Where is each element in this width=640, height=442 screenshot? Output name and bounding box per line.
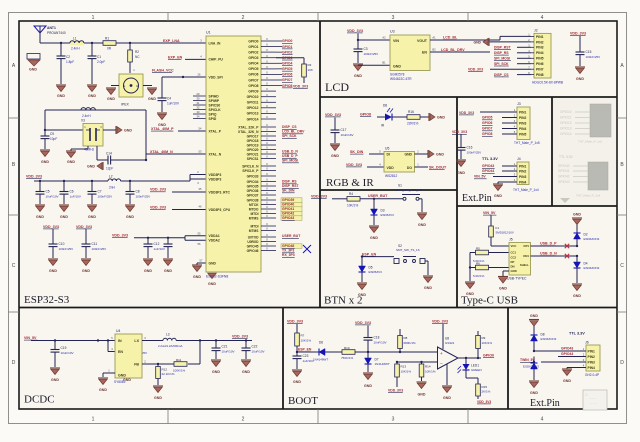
wire row2 (558, 356, 586, 358)
svg-text:LNA_IN: LNA_IN (209, 41, 222, 45)
svg-text:SPICLK: SPICLK (209, 108, 222, 112)
svg-text:GND: GND (148, 97, 156, 101)
svg-text:C21: C21 (222, 345, 228, 349)
svg-text:GND: GND (404, 153, 412, 157)
capacitor C16 (457, 135, 482, 160)
ground for C9 (40, 150, 50, 164)
wire VDD to U5 (367, 166, 384, 168)
svg-text:VDD3P3: VDD3P3 (209, 177, 222, 181)
svg-text:GPIO40: GPIO40 (282, 203, 294, 207)
svg-text:GPIO0: GPIO0 (248, 39, 258, 43)
svg-text:EN: EN (118, 350, 123, 354)
svg-text:XTAL_N: XTAL_N (209, 152, 222, 156)
junction (129, 42, 131, 44)
svg-text:2: 2 (242, 417, 245, 423)
svg-text:XTAL_P: XTAL_P (209, 129, 222, 133)
ESP32 chip U1 (206, 31, 261, 279)
svg-text:GPIO46: GPIO46 (247, 249, 259, 253)
opamp gnd stub (446, 364, 448, 386)
chip U1 right pin names (238, 39, 259, 253)
svg-text:D4: D4 (584, 262, 588, 266)
net label VDD_3V3 for C11 (76, 225, 92, 229)
svg-text:GND: GND (208, 282, 216, 286)
svg-text:GND: GND (473, 40, 481, 44)
GPIO labels to J3 (482, 116, 517, 137)
svg-text:C: C (620, 263, 624, 269)
svg-text:750K/1%: 750K/1% (341, 356, 354, 360)
svg-text:GPIO7: GPIO7 (482, 127, 492, 131)
diode D6 (313, 341, 328, 362)
resistor R13 (395, 362, 412, 387)
net label XTAL_40M_P (151, 127, 174, 131)
svg-text:XTAL_40M_P: XTAL_40M_P (151, 127, 174, 131)
LED1 (458, 358, 482, 373)
svg-text:GPIO2: GPIO2 (248, 50, 258, 54)
svg-text:10K/1%: 10K/1% (482, 341, 493, 345)
ground for C13 (163, 259, 173, 273)
svg-text:ESD5ZV3: ESD5ZV3 (381, 213, 395, 217)
svg-text:CC2: CC2 (511, 256, 517, 260)
svg-text:DP1: DP1 (524, 244, 530, 248)
svg-text:1N4148WT: 1N4148WT (375, 362, 390, 366)
svg-text:J6: J6 (585, 341, 589, 345)
svg-text:PIN5: PIN5 (536, 57, 544, 61)
svg-text:C3: C3 (364, 47, 368, 51)
svg-text:GPIO38: GPIO38 (247, 198, 259, 202)
power rail wire (34, 180, 108, 182)
svg-text:SPI_SCK: SPI_SCK (494, 62, 509, 66)
svg-text:VDD_3V3: VDD_3V3 (150, 188, 166, 192)
svg-text:1uF/10V: 1uF/10V (154, 247, 165, 251)
svg-text:C7: C7 (98, 190, 102, 194)
antenna ANT1 (34, 26, 66, 43)
svg-text:VDD_3V3: VDD_3V3 (26, 175, 42, 179)
svg-text:DISP_RST: DISP_RST (282, 184, 300, 188)
svg-text:LCD: LCD (325, 80, 349, 94)
svg-text:DISP_CS: DISP_CS (494, 73, 509, 77)
svg-text:PIN2: PIN2 (536, 40, 544, 44)
net label DISP_RST J2 (494, 46, 512, 50)
resistor R9 (476, 331, 493, 358)
resistor R4 (347, 192, 360, 208)
svg-text:GPIO11: GPIO11 (560, 116, 572, 120)
svg-text:Type-C USB: Type-C USB (461, 295, 518, 307)
net label SPI_SCK J2 (494, 62, 509, 66)
ground opamp (442, 386, 452, 400)
resistor R16 (407, 110, 420, 126)
svg-text:DISP_RST: DISP_RST (494, 46, 512, 50)
svg-text:100nF/25V: 100nF/25V (136, 194, 151, 198)
svg-text:GPIO8: GPIO8 (282, 84, 292, 88)
svg-text:R8: R8 (404, 336, 408, 340)
wire GPIO8 to IR led (377, 116, 385, 118)
svg-text:GPIO37: GPIO37 (247, 193, 259, 197)
svg-text:VIN_5V: VIN_5V (24, 336, 37, 340)
svg-text:THT_Male_P_1x5: THT_Male_P_1x5 (514, 141, 540, 145)
svg-text:VDD_3V3: VDD_3V3 (477, 400, 491, 404)
inductor L3 (158, 333, 182, 348)
svg-text:GND: GND (437, 115, 445, 119)
crystal circuit top wire (45, 109, 146, 111)
wire EXP_EN to CHIP_PU (185, 58, 206, 60)
net label VDD_3V3 C18 (355, 321, 371, 325)
wire VDD to J3 pin1 (480, 111, 517, 113)
svg-text:THT_Male_P_1x4: THT_Male_P_1x4 (513, 188, 539, 192)
svg-text:DISP_RS: DISP_RS (494, 51, 509, 55)
ground top of D8 esd (529, 314, 539, 326)
ground for C16 (456, 160, 466, 175)
svg-text:SMD1812/16V: SMD1812/16V (496, 231, 514, 235)
ground J5 (503, 271, 509, 276)
net label VDD_3V3 C15 (570, 32, 586, 36)
net label VDD_3V3 power rail (26, 175, 42, 179)
svg-text:GPIO6: GPIO6 (248, 73, 258, 77)
net label VDD_3V3 J2 (468, 67, 483, 71)
svg-text:PROANT440: PROANT440 (47, 31, 66, 35)
no-connect X on USB_D_P (565, 244, 569, 248)
wire IR to R16 (392, 116, 407, 118)
ground R12 (153, 386, 163, 400)
svg-text:R13: R13 (401, 365, 407, 369)
wire R10 to node (355, 351, 438, 353)
svg-text:MTMS: MTMS (249, 216, 260, 220)
svg-text:GPIO5: GPIO5 (482, 116, 492, 120)
svg-text:GND: GND (563, 379, 571, 383)
svg-text:GPIO0: GPIO0 (282, 39, 292, 43)
wire S2 to gnd (425, 261, 428, 275)
svg-text:3: 3 (392, 417, 395, 423)
svg-text:D3: D3 (381, 209, 385, 213)
net labels J4 (474, 164, 517, 179)
svg-text:TTL 3.3V: TTL 3.3V (559, 155, 574, 159)
svg-text:10K: 10K (308, 68, 313, 72)
svg-text:VDD_3V3: VDD_3V3 (293, 85, 308, 89)
capacitor C2 (57, 43, 75, 84)
svg-text:GND: GND (209, 261, 217, 265)
svg-text:F1: F1 (496, 226, 500, 230)
svg-text:2K/1%: 2K/1% (482, 390, 491, 394)
svg-text:10K/1%: 10K/1% (301, 338, 312, 342)
net label LCD_BL_DRV (441, 48, 465, 52)
svg-text:GPIO12: GPIO12 (560, 121, 572, 125)
svg-text:THT_Male_P_1x5: THT_Male_P_1x5 (578, 140, 603, 144)
capacitor C21 (212, 341, 235, 360)
resistor R6 (473, 261, 509, 278)
svg-text:C18: C18 (374, 336, 380, 340)
wire ESP_EN to S2 (362, 256, 394, 258)
svg-text:GPIO5: GPIO5 (248, 67, 258, 71)
rail after L2 (121, 175, 206, 182)
svg-text:THT_Male_P_1x4: THT_Male_P_1x4 (576, 194, 601, 198)
svg-text:LCD_BL_DRV: LCD_BL_DRV (282, 130, 305, 134)
resistor R3 pull-up (276, 58, 313, 83)
net label VDD_3V3 VDDA (112, 233, 128, 237)
ground for C5 (35, 205, 45, 219)
wire EN LCD_BL_DRV (430, 51, 490, 53)
wire R5 R6 to gnd (469, 253, 476, 282)
resistor R5 (473, 246, 509, 263)
net label VDD_3V3 DCDC out (232, 335, 248, 339)
svg-text:PIN3: PIN3 (536, 46, 544, 50)
FB wire (142, 341, 200, 366)
net label TWIN_5V (520, 358, 535, 362)
svg-text:100nF/25V: 100nF/25V (364, 52, 379, 56)
svg-text:SK_DIN: SK_DIN (282, 189, 295, 193)
svg-text:GPIO21: GPIO21 (247, 152, 259, 156)
resistor R14 (419, 362, 436, 381)
svg-text:PIN1: PIN1 (536, 35, 544, 39)
ground S2 (423, 276, 433, 290)
svg-text:SPI_SCK: SPI_SCK (282, 134, 297, 138)
svg-text:GND: GND (51, 378, 59, 382)
svg-text:——: —— (590, 396, 596, 400)
junction (60, 42, 62, 44)
svg-text:GPIO44: GPIO44 (561, 352, 573, 356)
svg-text:2.0pF: 2.0pF (97, 60, 105, 64)
ground for C2 (56, 85, 66, 98)
svg-text:GND: GND (530, 391, 538, 395)
right side net labels group1 (282, 125, 305, 163)
svg-text:ESD6ZON3: ESD6ZON3 (584, 237, 600, 241)
right side GPIO net labels (276, 39, 293, 88)
net label VDD_3V3 BTN (311, 195, 327, 199)
svg-text:GND: GND (370, 236, 378, 240)
diode D8 ESD (531, 326, 557, 351)
svg-text:IN: IN (118, 339, 122, 343)
svg-text:VIN_5V: VIN_5V (474, 175, 486, 179)
wire to VDD3P3_RTC (172, 191, 206, 193)
row ticks and letters (9, 63, 627, 366)
svg-text:10K/1%: 10K/1% (347, 203, 358, 207)
svg-text:GND: GND (393, 65, 401, 69)
svg-text:VDDA1: VDDA1 (209, 234, 220, 238)
right side net labels group2 (282, 180, 300, 193)
svg-text:2nH: 2nH (109, 186, 116, 190)
svg-text:PIN1: PIN1 (588, 349, 595, 353)
svg-text:R7: R7 (301, 334, 305, 338)
svg-text:MTDO: MTDO (249, 207, 259, 211)
svg-text:GH2.0-4P: GH2.0-4P (585, 373, 599, 377)
svg-text:PIN2: PIN2 (519, 169, 526, 173)
wire D6 to R10 (325, 351, 342, 353)
wire crystal pin4 to C14 (97, 146, 108, 160)
svg-text:1uF/10V: 1uF/10V (70, 194, 81, 198)
svg-text:GND: GND (466, 292, 474, 296)
wire VDDA rail (134, 236, 206, 241)
svg-text:GPIO11: GPIO11 (247, 101, 259, 105)
svg-text:U0TXD: U0TXD (248, 235, 259, 239)
svg-text:PIN1: PIN1 (519, 164, 526, 168)
svg-text:GND: GND (29, 68, 37, 72)
svg-text:U4: U4 (116, 329, 120, 333)
ground D3 (369, 226, 379, 240)
svg-text:SPICS1: SPICS1 (247, 157, 259, 161)
svg-text:GPIO35: GPIO35 (247, 184, 259, 188)
svg-text:PIN7: PIN7 (536, 68, 544, 72)
svg-text:U3: U3 (390, 30, 395, 34)
net label XTAL_40M_N (150, 150, 173, 154)
svg-text:GPIO45: GPIO45 (247, 244, 259, 248)
svg-text:R11: R11 (176, 358, 182, 362)
ground U4 (98, 378, 108, 392)
svg-text:DCDC: DCDC (24, 394, 55, 406)
svg-text:PIN8: PIN8 (536, 73, 544, 77)
net label VDD_3V3 R13 (388, 388, 403, 392)
svg-text:GPIO1: GPIO1 (282, 45, 292, 49)
resistor R2 (NC) (128, 43, 141, 73)
svg-text:ESP32-S3: ESP32-S3 (24, 294, 70, 306)
svg-text:R2: R2 (135, 50, 139, 54)
svg-text:2.4nH: 2.4nH (71, 47, 80, 51)
ground D4 (572, 284, 582, 298)
svg-text:GPIO10: GPIO10 (247, 95, 259, 99)
svg-text:GPIO19: GPIO19 (247, 143, 259, 147)
svg-text:USB_D_P: USB_D_P (282, 154, 298, 158)
svg-text:L2: L2 (109, 175, 113, 179)
wire U5 DO (415, 166, 429, 168)
ground S1 (417, 213, 427, 227)
svg-text:ESP_EN: ESP_EN (298, 348, 312, 352)
diode D4 ESD (574, 256, 600, 283)
svg-text:10uF/10V: 10uF/10V (252, 349, 265, 353)
svg-text:GND: GND (107, 97, 115, 101)
svg-text:GPIO17: GPIO17 (247, 134, 259, 138)
svg-text:PIN3: PIN3 (519, 175, 526, 179)
svg-text:ESP32-S3FN8: ESP32-S3FN8 (206, 275, 228, 279)
faded duplicate schematic area (553, 98, 616, 205)
svg-text:100nF/25V: 100nF/25V (98, 194, 113, 198)
wire EN loop (107, 339, 115, 351)
svg-text:GND: GND (99, 388, 107, 392)
svg-text:GPIO2: GPIO2 (282, 50, 292, 54)
svg-text:10pF: 10pF (50, 137, 57, 141)
svg-text:R4: R4 (349, 192, 353, 196)
wire S1 to gnd (419, 199, 422, 212)
ground for C10 (48, 259, 58, 273)
svg-text:GND: GND (124, 128, 132, 132)
svg-text:C10: C10 (59, 242, 65, 246)
capacitor C15 (576, 36, 601, 66)
svg-text:ESD6ZON3: ESD6ZON3 (541, 337, 557, 341)
diode D9 ESD (523, 357, 539, 381)
svg-text:PIN6: PIN6 (536, 62, 544, 66)
svg-text:LCD_BL_DRV: LCD_BL_DRV (441, 48, 465, 52)
svg-text:BTN x 2: BTN x 2 (324, 295, 363, 307)
svg-text:GND: GND (242, 370, 250, 374)
svg-text:TTL 3.3V: TTL 3.3V (482, 157, 498, 161)
svg-text:— —: — — (590, 401, 597, 405)
switch S2 (394, 244, 425, 264)
svg-text:R6: R6 (476, 261, 480, 265)
svg-text:GPIO43: GPIO43 (561, 347, 573, 351)
svg-text:GND: GND (88, 94, 96, 98)
svg-text:TX_3P3: TX_3P3 (282, 249, 294, 253)
svg-text:1: 1 (92, 417, 95, 423)
svg-text:100nF/25V: 100nF/25V (92, 247, 107, 251)
svg-text:B2: B2 (432, 48, 436, 52)
svg-text:C5: C5 (46, 190, 50, 194)
svg-text:U0RXD: U0RXD (247, 240, 259, 244)
svg-text:PIN1: PIN1 (519, 110, 526, 114)
svg-text:GND: GND (49, 269, 57, 273)
svg-text:ANT1: ANT1 (47, 26, 56, 30)
svg-text:22.1K/1%: 22.1K/1% (162, 372, 175, 376)
svg-text:R12: R12 (162, 367, 168, 371)
net label VDD_3V3 for CPU pin (150, 205, 166, 209)
wire antenna to LNA_IN (40, 42, 206, 44)
svg-text:SGM2578: SGM2578 (390, 73, 405, 77)
svg-text:GPIO1: GPIO1 (248, 45, 258, 49)
wire R16 to gnd (420, 116, 429, 118)
svg-text:GND: GND (36, 215, 44, 219)
net label VDD_3V3 RGB (325, 113, 341, 117)
capacitor C6 (60, 180, 81, 204)
wire VOUT LCD_BL (430, 36, 531, 40)
wire to R4 (332, 198, 347, 200)
svg-text:GS321: GS321 (445, 341, 455, 345)
svg-text:2: 2 (242, 15, 245, 21)
svg-text:C1: C1 (97, 55, 101, 59)
svg-text:U8: U8 (445, 337, 449, 341)
svg-text:R14: R14 (425, 365, 431, 369)
svg-text:GND: GND (164, 269, 172, 273)
resistor R7 (295, 324, 312, 352)
capacitor C11 (82, 229, 107, 258)
svg-text:MTDI: MTDI (250, 212, 258, 216)
chip U1 right pin stubs (261, 37, 276, 251)
svg-text:GND: GND (212, 370, 220, 374)
svg-text:C19: C19 (61, 346, 67, 350)
svg-text:FB: FB (134, 363, 139, 367)
net label USB_D_P (540, 242, 557, 246)
output rail (176, 340, 252, 342)
svg-text:C17: C17 (341, 128, 347, 132)
svg-text:C: C (12, 263, 16, 269)
right side highlighted GPIO labels (281, 198, 302, 221)
no-connect X on USB_D_N (565, 254, 569, 258)
svg-text:GND: GND (436, 152, 444, 156)
svg-text:CC1: CC1 (511, 251, 517, 255)
svg-text:C2: C2 (66, 55, 70, 59)
svg-text:PIN4: PIN4 (519, 180, 526, 184)
wire row3 (541, 361, 586, 363)
ground IPEX left (106, 88, 116, 101)
pin header J6 (582, 341, 600, 377)
svg-text:SPI_MOSI: SPI_MOSI (282, 159, 298, 163)
svg-text:C22: C22 (252, 345, 258, 349)
svg-text:D8: D8 (383, 104, 387, 108)
svg-text:GND: GND (443, 396, 451, 400)
ground U5 (428, 150, 444, 158)
svg-text:C6: C6 (70, 190, 74, 194)
svg-text:VDD3P3_RTC: VDD3P3_RTC (209, 190, 231, 194)
svg-text:B1: B1 (382, 61, 386, 65)
wire XTAL_40M_N to chip (146, 153, 206, 155)
svg-text:C4: C4 (167, 97, 171, 101)
highlighted GPIO48 label (281, 244, 302, 249)
svg-text:GND: GND (424, 286, 432, 290)
ground at J2 pin2 (489, 41, 531, 43)
wire VIN to fuse (490, 216, 492, 227)
USB type-C connector J5 (507, 238, 531, 281)
svg-text:SPIWP: SPIWP (209, 99, 220, 103)
net label SK_DIN U5 (350, 150, 364, 154)
net label USER_BUT BTN (368, 194, 388, 198)
svg-text:XTAL_32K_P: XTAL_32K_P (238, 125, 259, 129)
svg-text:GPIO40: GPIO40 (558, 164, 570, 168)
wire USB_D_P (531, 245, 578, 247)
svg-text:GPIO20: GPIO20 (247, 148, 259, 152)
